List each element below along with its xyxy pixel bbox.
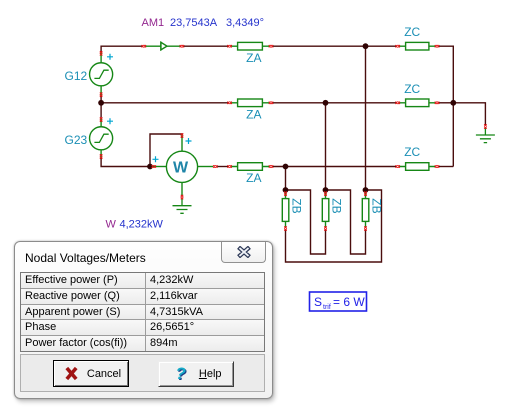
svg-text:S: S [314, 295, 322, 309]
svg-text:ZA: ZA [246, 171, 261, 185]
svg-text:ZA: ZA [246, 51, 261, 65]
svg-text:= 6 W: = 6 W [333, 295, 365, 309]
svg-text:G23: G23 [65, 133, 88, 147]
svg-text:ZB: ZB [290, 198, 304, 213]
svg-text:ZC: ZC [404, 82, 420, 96]
svg-text:W: W [173, 160, 189, 177]
svg-text:23,7543A: 23,7543A [170, 17, 218, 29]
svg-text:ZA: ZA [246, 108, 261, 122]
svg-text:3,4349°: 3,4349° [226, 17, 264, 29]
svg-text:ZC: ZC [404, 145, 420, 159]
svg-text:4,232kW: 4,232kW [120, 219, 164, 231]
svg-text:ZB: ZB [330, 198, 344, 213]
svg-text:AM1: AM1 [142, 17, 165, 29]
svg-text:ZC: ZC [404, 25, 420, 39]
svg-text:trif: trif [323, 304, 331, 311]
svg-text:W: W [106, 219, 117, 231]
svg-text:ZB: ZB [370, 198, 384, 213]
svg-text:G12: G12 [65, 69, 88, 83]
